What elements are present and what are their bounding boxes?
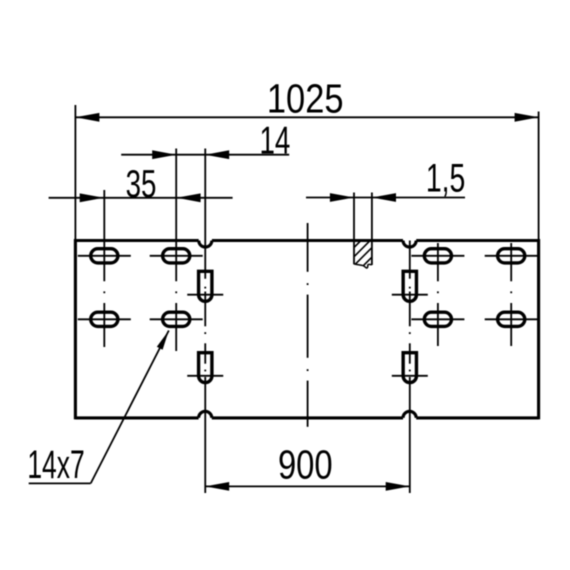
slot hole col A row 2 — [91, 312, 118, 326]
dimension 35 arrow right — [177, 193, 201, 202]
bottom notch left — [199, 411, 212, 418]
extension line 1025 right — [538, 112, 540, 241]
dimension 14 arrow left — [152, 150, 176, 159]
centerline horizontal slot B2 — [150, 318, 203, 320]
svg-text:1025: 1025 — [267, 76, 344, 121]
vertical slot upper right — [403, 271, 416, 301]
centerline vertical col C — [204, 149, 206, 279]
extension line 1,5 right — [371, 193, 373, 241]
extension line 1025 left — [74, 105, 76, 241]
centerline horizontal slot A2 — [78, 318, 131, 320]
dimension 900 arrow left — [205, 482, 229, 491]
vertical slot lower right — [403, 353, 416, 383]
extension line 1,5 left — [353, 193, 355, 241]
top notch left — [199, 241, 212, 248]
centerline vertical col F — [510, 243, 512, 281]
dimension 1,5 arrow left — [330, 193, 354, 202]
hatch lines — [354, 241, 361, 248]
centerline vertical center axis — [307, 223, 309, 272]
centerline horizontal slot E2 — [411, 318, 464, 320]
slot hole col F row 2 — [498, 312, 525, 326]
leader 14x7 arrowhead — [157, 331, 169, 350]
section strip left side — [353, 240, 355, 264]
section strip right side — [371, 240, 373, 265]
svg-text:900: 900 — [278, 442, 333, 487]
centerline horizontal vertical-slot lower right — [392, 375, 428, 377]
dimension 14 line — [121, 154, 289, 156]
plate outline top edge segments — [75, 239, 198, 242]
centerline vertical col A — [103, 190, 105, 281]
dimension 1,5 arrow right — [372, 193, 396, 202]
dimension 14 arrow right — [205, 150, 229, 159]
top notch right — [403, 241, 416, 248]
svg-text:35: 35 — [126, 164, 157, 206]
plate outline bottom edge segments — [75, 416, 198, 419]
dimension 35 line — [49, 197, 233, 199]
vertical slot upper left — [199, 271, 212, 301]
slot hole col E row 2 — [424, 312, 451, 326]
dimension 900 arrow right — [386, 482, 410, 491]
dimension 1025 line — [75, 116, 538, 118]
centerline horizontal slot A1 — [78, 255, 131, 257]
centerline horizontal vertical-slot lower left — [187, 375, 223, 377]
leader 14x7 diagonal — [91, 331, 169, 484]
vertical slot lower left — [199, 353, 212, 383]
centerline horizontal vertical-slot upper left — [187, 294, 223, 296]
slot hole col F row 1 — [498, 249, 525, 263]
dimension 1025 arrow right — [515, 113, 539, 122]
leader 14x7 shelf — [29, 482, 91, 484]
centerline vertical col B — [175, 149, 177, 282]
centerline vertical col E — [437, 243, 439, 281]
dimension 900 line — [205, 485, 409, 487]
svg-text:14x7: 14x7 — [27, 444, 84, 487]
dimension 1,5 line — [306, 197, 465, 199]
slot hole col B row 2 — [163, 312, 190, 326]
svg-text:14: 14 — [259, 120, 290, 162]
centerline horizontal slot F2 — [485, 318, 538, 320]
plate outline left edge — [74, 239, 77, 419]
slot hole col B row 1 — [163, 249, 190, 263]
slot hole col A row 1 — [91, 249, 118, 263]
slot hole col E row 1 — [424, 249, 451, 263]
bottom notch right — [403, 411, 416, 418]
centerline horizontal slot F1 — [485, 255, 538, 257]
centerline horizontal slot B1 — [150, 255, 203, 257]
svg-text:1,5: 1,5 — [426, 157, 465, 201]
centerline horizontal slot E1 — [411, 255, 464, 257]
centerline horizontal vertical-slot upper right — [392, 294, 428, 296]
dimension 35 arrow left — [80, 193, 104, 202]
plate outline right edge — [537, 239, 540, 419]
centerline vertical col D — [409, 241, 411, 279]
section break wavy line — [354, 264, 372, 268]
dimension 1025 arrow left — [75, 113, 99, 122]
